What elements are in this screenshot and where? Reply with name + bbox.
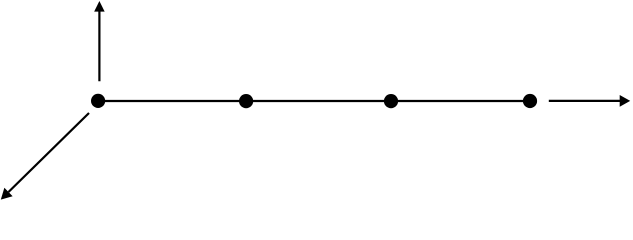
node dot 3: [384, 94, 398, 108]
node dot 2: [239, 94, 253, 108]
diagonal arrow (down-left axis): [1, 113, 89, 200]
right arrow (horizontal axis continuation): [549, 95, 630, 107]
wire (horizontal axis line): [98, 100, 531, 102]
node dot 1 (origin): [91, 94, 105, 108]
up arrow (vertical axis): [94, 1, 105, 81]
node dot 4: [523, 94, 537, 108]
